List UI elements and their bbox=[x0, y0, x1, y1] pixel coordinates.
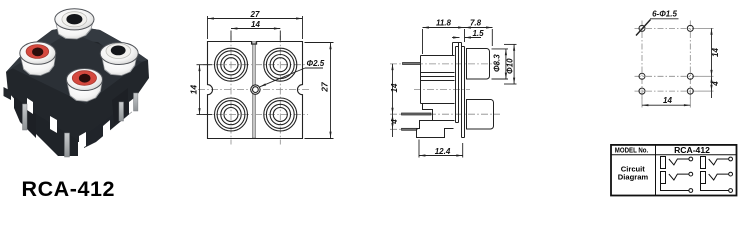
ground wire bbox=[701, 184, 729, 191]
svg-text:27: 27 bbox=[250, 10, 260, 19]
hole B1 bbox=[639, 73, 645, 79]
switch contact J1 bbox=[669, 159, 689, 165]
switch contact J2 bbox=[669, 174, 689, 180]
dim 12.4 bbox=[419, 140, 463, 158]
leg right bbox=[112, 88, 128, 124]
body internal lines bbox=[421, 73, 455, 121]
jack row centerline top bbox=[203, 64, 308, 66]
jack TR concentric circles bbox=[264, 48, 297, 81]
label 6-phi1.5 with leader bbox=[636, 19, 679, 36]
body outline square with side notches bbox=[208, 42, 303, 139]
jack: white right bbox=[100, 43, 138, 76]
center hole phi2.5 bbox=[251, 85, 260, 94]
svg-text:6-Φ1.5: 6-Φ1.5 bbox=[652, 9, 677, 18]
hole C1 bbox=[639, 88, 645, 94]
mid axis bbox=[414, 88, 470, 90]
column divider bbox=[655, 145, 657, 196]
flange plates bbox=[453, 43, 465, 138]
top barrel bbox=[467, 49, 490, 80]
ground pin axis bbox=[390, 128, 418, 130]
middle slot (gray filled) bbox=[252, 42, 255, 139]
jack column centerline left bbox=[230, 36, 232, 145]
dim phi10 bbox=[504, 44, 517, 84]
svg-text:RCA-412: RCA-412 bbox=[674, 145, 710, 155]
dim 14 right bbox=[711, 28, 713, 98]
hole B2 bbox=[687, 73, 693, 79]
ground wire bbox=[661, 184, 689, 191]
center lines bbox=[635, 21, 699, 99]
svg-text:4: 4 bbox=[390, 119, 399, 125]
svg-text:11.8: 11.8 bbox=[436, 18, 452, 27]
middle horizontal centerline bbox=[198, 89, 310, 91]
base slab left bbox=[14, 96, 36, 138]
jack BR concentric circles bbox=[264, 98, 297, 131]
group 2 bbox=[701, 157, 733, 193]
jack: red center bbox=[67, 69, 103, 102]
hole C2 bbox=[687, 88, 693, 94]
svg-text:7.8: 7.8 bbox=[470, 18, 482, 27]
table outer border bbox=[611, 145, 737, 196]
block front face bbox=[12, 32, 142, 104]
body main outline bbox=[417, 56, 455, 138]
dim 1.5 bbox=[452, 37, 481, 39]
jack BL concentric circles bbox=[215, 98, 248, 131]
svg-text:Φ10: Φ10 bbox=[506, 58, 515, 74]
svg-text:RCA-412: RCA-412 bbox=[22, 177, 115, 201]
block top bevel highlight bbox=[6, 26, 148, 72]
jack: white top bbox=[55, 9, 94, 39]
jack sleeve contact J3 bbox=[701, 157, 706, 169]
top jack axis bbox=[390, 63, 500, 65]
dim 27 right bbox=[305, 43, 334, 139]
metal pins bbox=[23, 93, 138, 157]
base slab center bbox=[36, 114, 78, 156]
svg-text:1.5: 1.5 bbox=[472, 29, 484, 38]
group 1 bbox=[661, 157, 693, 193]
dim phi8.3 bbox=[492, 49, 509, 79]
svg-text:14: 14 bbox=[390, 83, 399, 92]
terminal J2 bbox=[689, 172, 693, 176]
switch contact J3 bbox=[709, 159, 729, 165]
leader phi2.5 bbox=[260, 68, 323, 87]
jack TL concentric circles bbox=[215, 48, 248, 81]
dim 14 left bbox=[197, 65, 213, 115]
jack row centerline bottom bbox=[203, 114, 308, 116]
jack: red left bbox=[20, 42, 56, 76]
jack sleeve contact J1 bbox=[661, 157, 666, 169]
dim 11.8 / 7.8 bbox=[423, 28, 493, 55]
hole A1 bbox=[639, 25, 645, 31]
svg-text:14: 14 bbox=[189, 85, 199, 95]
left lock tab bbox=[4, 87, 12, 100]
terminal J1 bbox=[689, 157, 693, 161]
switch contact J4 bbox=[709, 174, 729, 180]
dim 14 top bbox=[231, 29, 280, 41]
ground terminal bbox=[729, 189, 733, 193]
pin top bbox=[403, 63, 421, 65]
jack sleeve contact J2 bbox=[661, 172, 666, 184]
jack column centerline right bbox=[279, 36, 281, 145]
svg-text:27: 27 bbox=[320, 81, 330, 93]
pin ground bbox=[402, 128, 417, 130]
terminal J3 bbox=[729, 157, 733, 161]
bottom jack axis bbox=[390, 113, 500, 115]
ground terminal bbox=[689, 189, 693, 193]
block body silhouette bbox=[6, 26, 149, 142]
svg-text:14: 14 bbox=[251, 20, 260, 29]
dim 27 top bbox=[208, 16, 303, 39]
svg-text:4: 4 bbox=[711, 81, 720, 87]
terminal J4 bbox=[729, 172, 733, 176]
svg-text:14: 14 bbox=[711, 48, 720, 57]
base slab right bbox=[84, 102, 132, 148]
pin middle bbox=[402, 113, 432, 115]
hole A2 bbox=[687, 25, 693, 31]
jack sleeve contact J4 bbox=[701, 172, 706, 184]
svg-text:14: 14 bbox=[663, 96, 672, 105]
bottom barrel bbox=[467, 100, 494, 130]
header separator bbox=[611, 154, 737, 156]
extension lines to dims bbox=[642, 28, 714, 107]
svg-text:MODEL No.: MODEL No. bbox=[615, 146, 649, 155]
svg-text:Diagram: Diagram bbox=[618, 173, 649, 182]
dim 14 / 4 left bbox=[392, 64, 394, 137]
svg-text:Φ2.5: Φ2.5 bbox=[307, 59, 325, 68]
svg-text:Φ8.3: Φ8.3 bbox=[493, 54, 502, 72]
svg-text:12.4: 12.4 bbox=[435, 147, 451, 156]
center lines (gray) bbox=[198, 36, 310, 145]
white gaps between legs bbox=[27, 98, 134, 150]
axis centerlines bbox=[390, 64, 500, 129]
dim 14 bottom bbox=[642, 104, 690, 106]
